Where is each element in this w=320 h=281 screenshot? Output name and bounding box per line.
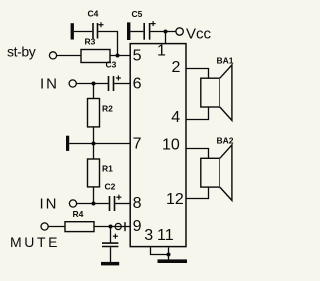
speaker BA2 — [201, 136, 234, 201]
junction (pin 3 / pin 11 / ground) — [167, 253, 171, 257]
svg-text:4: 4 — [171, 109, 180, 126]
terminal IN (upper) — [40, 76, 76, 93]
svg-text:MUTE: MUTE — [10, 234, 60, 250]
svg-text:C2: C2 — [105, 182, 116, 192]
wire — [69, 143, 130, 145]
svg-text:12: 12 — [166, 191, 184, 208]
terminal Vcc — [176, 26, 212, 43]
capacitor C5 — [132, 9, 156, 40]
svg-text:st-by: st-by — [7, 44, 36, 60]
svg-text:C4: C4 — [88, 9, 99, 19]
junction (R3 / C4 / pin 5) — [116, 54, 120, 58]
svg-text:8: 8 — [133, 195, 142, 212]
wire — [77, 203, 109, 205]
ground bar (C4 left terminal) — [71, 23, 74, 39]
svg-text:7: 7 — [133, 136, 142, 153]
ground (IC pins 3,11) — [158, 259, 188, 263]
svg-text:BA1: BA1 — [217, 56, 234, 66]
wire — [74, 31, 92, 33]
svg-text:Vcc: Vcc — [186, 26, 212, 43]
svg-text:IN: IN — [40, 76, 59, 93]
wire — [57, 55, 81, 57]
wire — [76, 83, 108, 85]
svg-text:11: 11 — [157, 227, 174, 244]
ground bar (C5 left terminal) — [127, 22, 130, 40]
wire (pin 3 stub) — [151, 247, 169, 254]
wire — [110, 227, 112, 243]
wire — [110, 55, 130, 57]
resistor R1 — [88, 159, 114, 187]
junction (R2 / R1 / pin 7) — [92, 142, 96, 146]
svg-text:BA2: BA2 — [217, 136, 234, 146]
capacitor C3 — [109, 76, 121, 92]
wire — [130, 31, 143, 33]
svg-text:R2: R2 — [102, 104, 113, 114]
junction (IN1 / R2) — [92, 82, 96, 86]
wire — [114, 83, 130, 85]
svg-text:3: 3 — [144, 227, 153, 244]
wire (pin 10 to BA2) — [186, 149, 209, 159]
wire — [93, 127, 95, 144]
svg-text:9: 9 — [133, 218, 142, 235]
wire — [93, 84, 95, 99]
svg-text:C5: C5 — [132, 9, 143, 19]
resistor R4 — [65, 209, 94, 232]
svg-text:2: 2 — [172, 59, 181, 76]
wire (pin 1 stub) — [165, 32, 167, 44]
terminal IN (lower) — [40, 196, 77, 213]
wire — [98, 32, 117, 56]
wire (BA2 to pin 12) — [186, 187, 209, 198]
svg-text:1: 1 — [157, 43, 166, 60]
wire (BA1 to pin 4) — [186, 107, 209, 120]
resistor R3 — [81, 37, 110, 63]
capacitor (series, mute line) — [115, 222, 125, 231]
svg-text:10: 10 — [162, 137, 180, 154]
svg-text:IN: IN — [40, 196, 59, 213]
resistor R2 — [88, 99, 114, 127]
capacitor C2 — [110, 195, 122, 211]
wire — [93, 187, 95, 204]
wire — [48, 226, 65, 228]
wire — [115, 203, 130, 205]
terminal st-by — [7, 44, 57, 60]
svg-text:R4: R4 — [73, 209, 84, 219]
svg-text:R3: R3 — [85, 37, 96, 47]
wire — [110, 247, 112, 262]
svg-text:6: 6 — [133, 76, 142, 93]
svg-text:5: 5 — [133, 48, 142, 65]
wire — [150, 31, 176, 33]
junction (R4 / C1 / pin 9) — [109, 225, 113, 229]
ground bar (pin 7 net) — [66, 136, 69, 151]
IC body — [130, 44, 186, 247]
junction (IN2 / R1) — [92, 202, 96, 206]
svg-text:C3: C3 — [106, 60, 117, 70]
svg-text:R1: R1 — [102, 164, 113, 174]
wire — [93, 144, 95, 160]
capacitor C1 (mute to ground) — [102, 234, 118, 247]
wire (pin 2 to BA1) — [186, 69, 209, 79]
ground (below C1) — [101, 262, 119, 266]
junction (C5 / pin 1 / Vcc) — [164, 30, 168, 34]
terminal MUTE — [10, 223, 60, 250]
wire (pin 11 stub) — [168, 247, 170, 259]
capacitor C4 — [88, 9, 104, 39]
wire — [94, 226, 130, 228]
speaker BA1 — [201, 56, 234, 121]
